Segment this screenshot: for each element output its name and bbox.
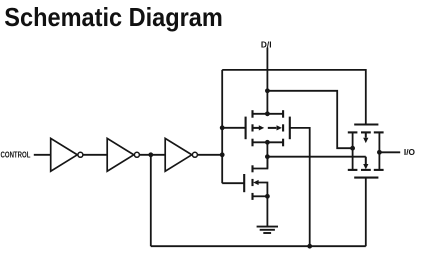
wire bottom bus: [151, 245, 366, 247]
transistor Q1 substrate arrow: [253, 125, 264, 130]
node right rail junction: [377, 150, 382, 155]
wire to I/O: [379, 151, 400, 153]
wire U1 to U2: [83, 154, 107, 156]
wire output TG bottom gate to bottom bus: [365, 178, 367, 247]
wire TG bottom node down: [266, 142, 268, 168]
wire left vertical rail: [221, 70, 223, 183]
wire rail to Q3 gate: [222, 182, 244, 184]
transistor Q2 right half of transmission gate: [283, 110, 290, 146]
wire junction to output TG bottom arrow: [267, 156, 365, 158]
wire D/I vertical: [266, 48, 268, 114]
inverter U2: [107, 138, 139, 171]
wire Q3 drain lead: [253, 157, 268, 169]
transistor Q4 top half of output transmission gate: [348, 125, 384, 133]
node D/I branch junction: [265, 88, 270, 93]
wire TG top lead: [253, 113, 284, 115]
wire U3 output to rail: [198, 154, 222, 156]
node junction to output TG arrow: [265, 154, 270, 159]
wire TG bottom lead: [253, 141, 284, 143]
node rail junction to Q1 gate: [220, 125, 225, 130]
wire junction down to bottom bus: [150, 155, 152, 246]
inverter U3: [165, 138, 197, 171]
transistor Q3 pulldown: [244, 165, 252, 200]
wire Q3 source lead: [253, 195, 268, 197]
wire Q2 gate to bottom bus: [290, 128, 310, 246]
node rail junction with U3 output: [220, 152, 225, 157]
svg-text:D/I: D/I: [261, 40, 272, 50]
transistor Q5 bottom half of output transmission gate: [348, 170, 384, 178]
wire control input: [34, 154, 51, 156]
inverter U1: [51, 138, 83, 171]
transistor Q2 substrate arrow: [268, 125, 282, 130]
wire output TG right rail: [378, 132, 380, 170]
junction after U2: [148, 152, 153, 157]
wire rail to Q1 gate: [222, 127, 245, 129]
transistor Q4 substrate arrow: [363, 133, 368, 143]
transistor Q3 substrate arrow: [253, 180, 267, 196]
transistor Q1 left gate of transmission gate: [246, 110, 253, 146]
node TG bottom junction: [265, 140, 270, 145]
node bottom bus junction: [307, 244, 312, 249]
node TG top junction: [265, 111, 270, 116]
wire U2 to U3: [140, 154, 165, 156]
svg-text:CONTROL: CONTROL: [1, 150, 31, 160]
ground: [257, 227, 278, 233]
node left rail junction: [350, 146, 355, 151]
svg-text:I/O: I/O: [404, 147, 416, 157]
wire output TG left rail: [352, 132, 354, 170]
wire top horizontal run: [222, 70, 366, 125]
transistor Q5 substrate arrow: [363, 157, 368, 170]
svg-text:Schematic Diagram: Schematic Diagram: [4, 4, 223, 32]
wire D/I branch to output TG: [267, 91, 352, 148]
wire Q3 source to ground: [266, 196, 268, 226]
node Q3 source junction: [265, 194, 270, 199]
